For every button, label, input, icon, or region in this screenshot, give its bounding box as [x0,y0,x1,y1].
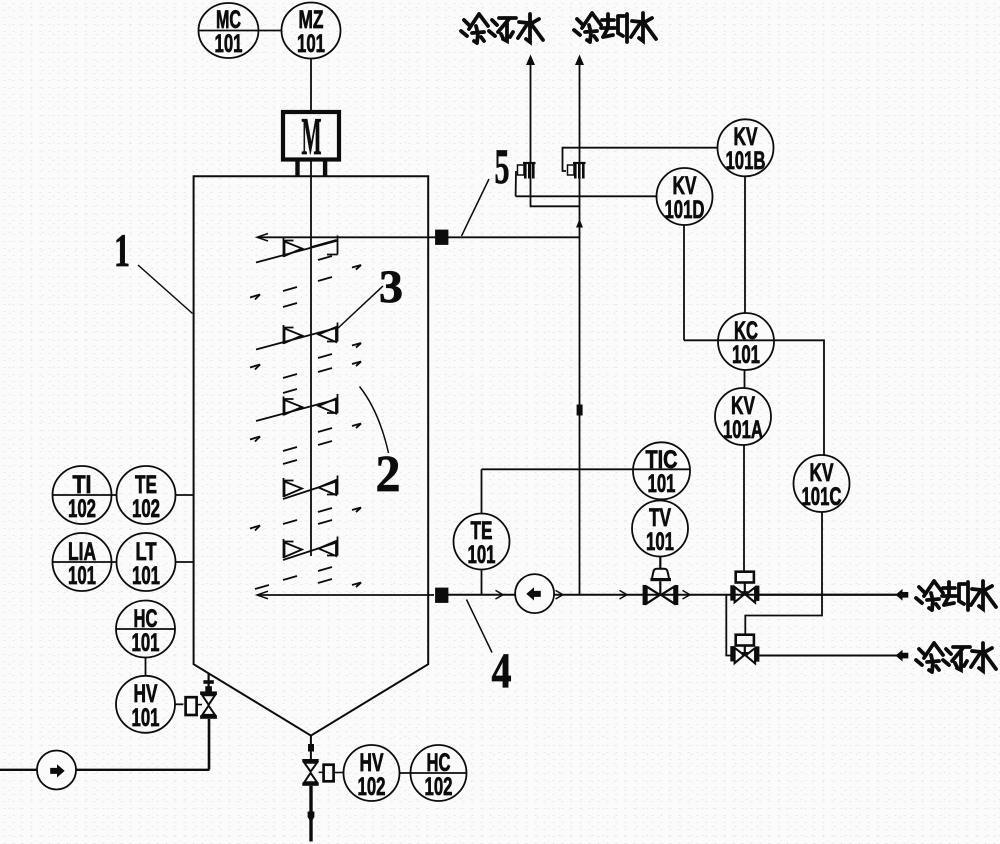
top label cooling water [574,13,656,42]
svg-text:101: 101 [215,30,243,58]
riser junction mark [577,405,583,416]
instrument KC101 [718,313,774,370]
signal KV101D down [683,225,685,340]
instrument TV101 [632,501,688,557]
control valve TV101 body [643,585,646,605]
valve KV chilled body [730,646,734,661]
svg-text:102: 102 [132,495,160,523]
instrument TI102 [53,466,112,524]
signal KV101C to chilled valve [745,512,822,635]
leader 3 [337,286,384,330]
riser flow arrow [576,219,583,228]
outlet nozzle 4 [436,589,448,603]
svg-text:102: 102 [68,495,96,523]
signal TE101 to TIC101 [482,468,691,470]
TE101 tap to pipe [481,570,483,595]
instrument MC101 [199,3,259,58]
instrument TE102 [117,466,176,524]
svg-text:M: M [302,108,322,166]
svg-text:5: 5 [495,138,510,194]
instrument KV101B [718,119,774,176]
instrument KV101D [657,168,713,225]
pump P2 [37,751,76,790]
svg-text:101A: 101A [723,416,763,444]
signal KC horizontal to KV101C drop [684,340,824,455]
instrument KV101A [715,388,771,445]
svg-text:101: 101 [732,341,760,369]
leader 4 [467,600,493,653]
drain pipe to bottom header [208,719,211,770]
cooling water return line [759,594,900,596]
leader 1 [138,265,193,314]
svg-text:102: 102 [425,773,453,801]
bottom drain outlet [309,786,312,842]
feed line 5 [258,236,580,238]
riser inline valve left [518,163,536,179]
instrument HC102 [411,745,467,801]
wire HC101-HV101 [145,658,147,676]
leader 2 [360,387,389,454]
agitator paddle row 4 [283,476,338,500]
pump P1 [515,574,554,613]
instrument TE101 [454,514,510,570]
cooling water riser [579,64,581,595]
drain valve HV101 actuator link [186,697,197,715]
svg-text:101: 101 [132,704,160,732]
motor mount legs [295,160,299,177]
svg-text:101B: 101B [726,147,766,175]
wire LT101 to tank [176,561,194,563]
wire HV101 to valve [175,703,183,705]
feed pipe 5 top nozzle [436,231,448,245]
right label cooling water [916,581,996,610]
main recirculation pipe [447,594,901,596]
signal KV101B down [744,176,746,313]
instrument HC101 [116,601,175,658]
chilled water riser [531,64,580,206]
bottom drain valve HV102 body [302,759,318,762]
instrument LIA101 [53,533,112,591]
svg-text:101: 101 [132,629,160,657]
signal to KV101D [516,171,657,196]
wire TE102 to tank [176,494,194,496]
instrument HV102 [344,745,400,801]
svg-text:101: 101 [132,562,160,590]
svg-text:101C: 101C [802,483,842,511]
tank 1 vessel body [194,176,429,735]
svg-text:102: 102 [358,773,386,801]
agitator shaft [310,160,312,557]
agitator paddle row 2 [256,323,338,350]
agitator paddle row 5 [283,537,338,561]
signal MZ101 to motor [310,59,312,113]
signal KC to KV101A [744,370,746,389]
right label chilled water [916,643,996,672]
junction mark [308,744,314,752]
svg-text:101: 101 [68,562,96,590]
agitator paddle row 3 [256,394,338,421]
svg-text:101D: 101D [665,196,705,224]
valve KV cooling actuator box [736,572,754,583]
drain valve HV101 stem [208,674,210,692]
valve KV chilled actuator box [736,635,754,646]
chilled water return line [759,655,900,657]
leader 5 [462,179,490,236]
control valve TV101 actuator [659,557,661,569]
instrument LT101 [117,533,176,591]
svg-text:101: 101 [468,541,496,569]
valve KV cooling body [730,585,734,600]
helical ribbon dashes [250,256,361,589]
top label chilled water [461,14,543,43]
outlet line 4 inside tank [258,594,434,596]
motor M [283,112,339,160]
instrument HV101 [116,676,175,733]
signal to KV101B [563,148,718,171]
instrument TIC101 [633,442,690,499]
chilled riser top arrow [526,55,535,66]
riser inline valve right [568,163,586,179]
svg-text:101: 101 [646,528,674,556]
bottom feed pipe [0,769,210,771]
svg-text:1: 1 [114,225,130,277]
riser top arrow [575,55,584,66]
svg-text:101: 101 [297,30,325,58]
instrument KV101C [794,455,850,512]
signal KV101A to valve [743,445,745,572]
TE101 signal up [481,469,483,513]
bottom valve actuator link [324,765,334,782]
bottom drain line from cone apex [310,736,312,760]
svg-text:2: 2 [376,446,401,503]
svg-text:4: 4 [492,642,512,698]
drain valve HV101 body [200,691,217,695]
instrument MZ101 [282,3,341,59]
agitator paddle row 1 [256,236,338,263]
branch tee to chilled return [726,595,731,656]
flow marks on pipe [496,590,691,599]
svg-text:101: 101 [648,470,676,498]
wire MC-MZ [259,30,282,32]
